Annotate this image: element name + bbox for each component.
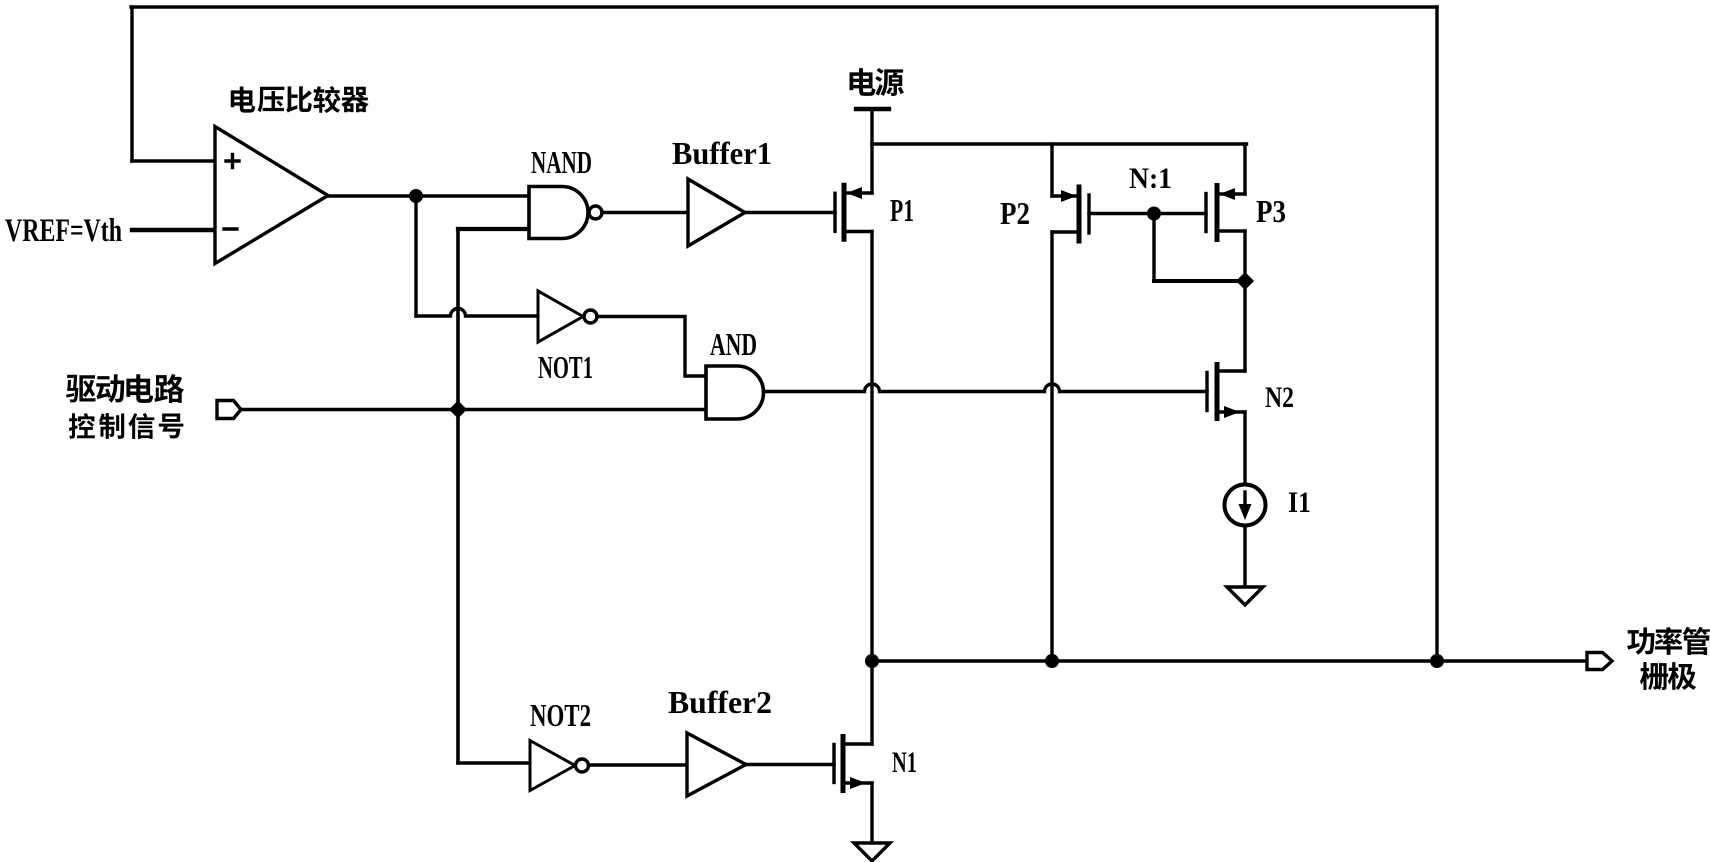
wire gates junction down	[1152, 214, 1155, 282]
svg-text:NOT2: NOT2	[530, 697, 591, 733]
arrow P2 source (PMOS)	[1061, 190, 1077, 202]
input terminal 驱动电路控制信号	[217, 401, 241, 419]
wire I1 to ground	[1243, 526, 1246, 588]
current source I1	[1225, 485, 1266, 526]
wire Buffer1 to P1 gate	[745, 211, 835, 214]
svg-text:NOT1: NOT1	[538, 349, 593, 385]
arrow N1 source (NMOS)	[850, 777, 866, 789]
buffer Buffer1	[688, 179, 745, 246]
transistor P1	[835, 185, 872, 239]
wire output node	[872, 659, 1588, 662]
inverter NOT1	[538, 291, 597, 342]
wire to NAND input 2	[458, 227, 529, 231]
AND gate	[706, 366, 764, 419]
svg-text:Buffer1: Buffer1	[672, 135, 772, 171]
wire op-amp + input	[132, 159, 215, 163]
power supply 电源 symbol	[856, 107, 889, 111]
wire P2 gate to P3 gate	[1089, 212, 1206, 215]
output terminal 功率管栅极	[1587, 653, 1612, 670]
node control signal junction	[449, 401, 467, 419]
wire to P3 drain (diode connection)	[1154, 279, 1245, 283]
inverter NOT2	[530, 741, 589, 791]
wire feedback left vertical	[130, 7, 133, 161]
node current mirror gates	[1147, 207, 1161, 221]
wire junction down to N2 drain	[1243, 281, 1246, 371]
ground (below N1)	[854, 843, 890, 861]
node comparator output junction	[409, 189, 423, 203]
svg-text:NAND: NAND	[531, 144, 592, 180]
transistor N2	[1207, 365, 1245, 419]
wire NOT2 to Buffer2	[589, 763, 688, 766]
svg-text:N2: N2	[1265, 381, 1294, 414]
wire NAND to Buffer1	[602, 211, 688, 214]
wire NOT1 to AND input 1	[597, 317, 706, 377]
wire feedback top	[131, 5, 1437, 8]
svg-text:P2: P2	[1000, 195, 1030, 231]
wire junction down to NOT1 level	[414, 196, 417, 316]
wire to NOT1 input (hop over control line)	[416, 309, 538, 317]
transistor P3	[1206, 186, 1245, 240]
svg-text:P1: P1	[890, 192, 914, 228]
label 电压比较器 (voltage comparator)	[231, 86, 369, 113]
arrow P1 source (PMOS)	[847, 187, 863, 199]
wire P2 source to rail	[1050, 144, 1053, 196]
label 功率管	[1627, 627, 1710, 655]
wire output node down to N1 drain	[870, 661, 873, 744]
arrow N2 source (NMOS)	[1224, 406, 1240, 418]
wire P3 source to rail	[1243, 144, 1246, 194]
wire P1 drain down to output node	[870, 232, 873, 662]
wire P1 source to rail	[870, 144, 873, 193]
svg-text:Buffer2: Buffer2	[668, 684, 772, 720]
node P3 drain junction	[1236, 272, 1254, 290]
wire Buffer2 to N1 gate	[746, 763, 834, 766]
wire N1 source to ground	[870, 783, 873, 843]
label 控制信号	[69, 413, 184, 439]
svg-text:N:1: N:1	[1129, 162, 1172, 195]
transistor N1	[834, 737, 872, 791]
node output at P1/N1 drains	[865, 654, 879, 668]
op-amp U1 voltage comparator	[215, 127, 328, 264]
label 电源 (power supply)	[850, 68, 904, 96]
wire comparator output to NAND	[328, 194, 529, 197]
wire feedback right vertical	[1435, 7, 1438, 661]
label 栅极	[1640, 662, 1696, 690]
node output at feedback	[1430, 654, 1444, 668]
wire control signal vertical	[456, 229, 460, 763]
ground (below I1)	[1227, 587, 1263, 605]
wire supply rail	[872, 142, 1247, 145]
wire VREF input	[132, 228, 215, 232]
wire control to NOT2 input	[458, 761, 530, 765]
wire power stub	[870, 109, 873, 144]
node output at P2 drain	[1045, 654, 1059, 668]
svg-text:AND: AND	[710, 326, 757, 362]
label 驱动电路	[66, 374, 184, 403]
svg-text:I1: I1	[1288, 486, 1311, 519]
wire control signal input	[241, 408, 706, 412]
wire P3 drain down	[1243, 231, 1246, 281]
svg-text:P3: P3	[1256, 193, 1286, 229]
svg-text:N1: N1	[892, 746, 917, 779]
svg-text:VREF=Vth: VREF=Vth	[5, 213, 122, 249]
wire N2 source to I1	[1243, 412, 1246, 485]
buffer Buffer2	[687, 733, 746, 796]
arrow P3 source (PMOS)	[1220, 188, 1236, 200]
NAND gate	[529, 187, 602, 239]
wire P2 drain down to output node	[1050, 232, 1053, 661]
transistor P2	[1052, 187, 1089, 241]
wire AND output to N2 gate	[764, 384, 1208, 391]
